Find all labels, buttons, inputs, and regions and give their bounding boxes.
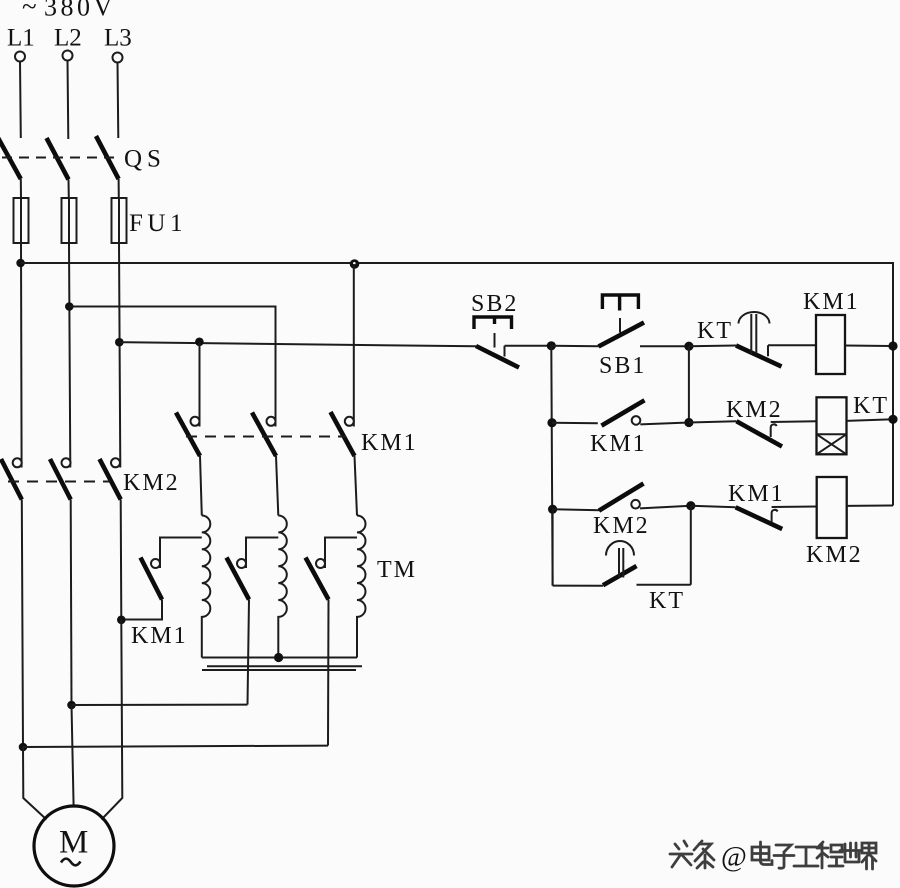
wire QS3 to fuse 3: [118, 179, 120, 198]
wire tap2 horizontal: [72, 704, 248, 706]
SB2 actuator link: [494, 333, 496, 348]
node L2 branch: [65, 302, 74, 311]
KM1 NC fixed hook: [772, 510, 778, 523]
wire node B down: [688, 346, 690, 422]
svg-text:L1: L1: [7, 25, 35, 52]
KT delay symbol lines row3: [618, 548, 620, 578]
watermark 头条@电子工程世界: [670, 841, 876, 873]
svg-text:KM1: KM1: [728, 481, 785, 507]
node KM1 pole1 tap: [195, 338, 204, 347]
coil KT divider: [817, 433, 847, 435]
motor M circle: [34, 806, 114, 886]
svg-text:KM2: KM2: [806, 542, 863, 568]
pushbutton SB1 blade: [599, 323, 645, 347]
KT delayed closing blade: [603, 566, 637, 585]
wire L2 branch horizontal and down to KM1 pole2: [69, 307, 275, 427]
KT delay symbol lines: [750, 314, 752, 354]
KM2 main linkage dashed: [8, 481, 110, 483]
node L1 top rail junction: [16, 259, 25, 268]
pushbutton SB2 blade: [476, 346, 519, 368]
svg-text:KM1: KM1: [131, 623, 188, 649]
svg-text:L2: L2: [54, 25, 82, 52]
wire L1 KM2 down to node: [22, 500, 23, 748]
node D row2: [684, 418, 693, 427]
KM2 NC contact blade: [737, 421, 783, 446]
wire node C to KM1 aux: [552, 422, 598, 425]
wire L2 fuse to KM2: [69, 243, 70, 468]
svg-text:KM2: KM2: [123, 470, 180, 496]
pushbutton SB1 actuator bracket: [602, 295, 638, 309]
node C row2 left: [547, 418, 556, 427]
KM2 aux NO terminal: [631, 500, 640, 509]
glyph 头: [670, 841, 692, 867]
wire node F to KM1 NC: [691, 506, 736, 508]
wire node B to KT contact: [689, 345, 736, 348]
wire QS1 to fuse 1: [20, 179, 22, 198]
switch QS pole 2 blade: [47, 138, 69, 180]
wire SB2 to node A: [505, 345, 552, 347]
transformer TM coil 1: [202, 516, 211, 658]
svg-text:SB2: SB2: [471, 291, 518, 317]
node right rail row2: [888, 415, 897, 424]
wire tap3 horizontal: [23, 746, 328, 747]
motor tilde: [61, 859, 81, 866]
svg-text:FU1: FU1: [129, 210, 187, 237]
svg-text:KT: KT: [697, 318, 733, 344]
glyph 条: [694, 841, 714, 868]
wire KT bypass down: [552, 509, 554, 585]
tap contact KM1-a terminal: [151, 559, 160, 568]
wire KM1 aux to node D: [640, 423, 689, 425]
wire L3 fuse to KM2: [119, 243, 120, 468]
tap contact KM1-c terminal: [316, 559, 325, 568]
KM1 NC contact blade: [736, 507, 783, 529]
pushbutton SB2 actuator bracket: [474, 317, 512, 329]
glyph 程: [817, 842, 843, 868]
svg-text:SB1: SB1: [599, 353, 646, 379]
contactor KM2 main pole 2: [62, 458, 71, 467]
node B: [684, 342, 693, 351]
wire node A down: [551, 346, 552, 586]
svg-text:~: ~: [22, 0, 37, 22]
wire KT bypass bottom left: [553, 585, 603, 587]
glyph 世: [840, 843, 861, 862]
wire KM1 pole3 to coil 3: [355, 456, 358, 516]
svg-text:M: M: [59, 825, 88, 861]
glyph 子: [774, 845, 794, 868]
wire L1 down to QS: [19, 62, 22, 139]
coil KT body: [817, 397, 847, 454]
terminal L3: [113, 53, 123, 63]
contactor KM1 main pole 1: [191, 417, 200, 426]
tap contact KM1-c blade: [306, 558, 329, 600]
wire L3 KM2 down to node: [120, 500, 123, 620]
wire KM2 NC to KT coil: [771, 420, 817, 423]
KT delayed NC contact blade: [736, 346, 782, 367]
contactor KM1 main pole 2: [267, 417, 276, 426]
coil KM1: [816, 315, 845, 374]
svg-text:@: @: [721, 842, 747, 873]
svg-text:380V: 380V: [44, 0, 116, 22]
glyph 工: [794, 847, 818, 866]
coil KT X mark: [817, 434, 847, 454]
terminal L2: [63, 51, 73, 61]
wire SB1 to node B: [640, 345, 689, 347]
wire KM2 aux to node F: [640, 506, 691, 509]
tap 3 wire down to L1 line: [327, 600, 330, 746]
node L1 motor tap: [19, 743, 28, 752]
tap contact KM1-b blade: [227, 558, 250, 600]
wire L2 into motor: [72, 705, 74, 807]
wire L1 into motor: [23, 747, 47, 820]
switch QS pole 1 blade: [0, 136, 21, 179]
star short bar lower: [202, 669, 356, 671]
node L3 branch: [115, 338, 124, 347]
KM2 NC fixed hook: [771, 424, 777, 437]
svg-text:TM: TM: [377, 557, 417, 583]
control rail wire from L3: [119, 342, 476, 346]
wire down to KM1 pole 1: [199, 342, 201, 427]
svg-text:KM2: KM2: [726, 397, 783, 423]
transformer star bar: [202, 657, 357, 659]
wire L3 into motor: [102, 620, 123, 820]
KM1 aux NO terminal: [632, 416, 641, 425]
KT delay symbol arc: [739, 312, 770, 324]
svg-text:QS: QS: [124, 146, 166, 173]
node coil2 star: [274, 653, 283, 662]
node tap1 on L3: [117, 616, 126, 625]
contactor KM2 main pole 1: [13, 458, 22, 467]
wire KT bypass bottom right: [637, 584, 691, 586]
transformer TM coil 2: [278, 516, 287, 658]
svg-text:KM2: KM2: [593, 513, 650, 539]
tap 1 wire from coil: [160, 538, 202, 569]
wire L2 KM2 down to node: [70, 500, 73, 706]
fuse FU1 element 3: [112, 198, 127, 243]
svg-text:KM1: KM1: [590, 431, 647, 457]
svg-text:KT: KT: [853, 393, 889, 419]
top rail wire: [21, 263, 893, 506]
KT contact fixed tick: [767, 345, 769, 356]
switch QS pole 3 blade: [96, 136, 119, 179]
svg-text:KM1: KM1: [803, 289, 860, 315]
wire node E to KM2 aux: [553, 509, 600, 510]
node right rail row1: [888, 341, 897, 350]
tap contact KM1-b terminal: [237, 559, 246, 568]
star short bar upper: [207, 665, 362, 667]
wire KM1 NC to KM2 coil: [772, 506, 817, 509]
wire KT bypass up to node F: [690, 506, 692, 585]
tap 2 wire down to L2 line: [248, 600, 250, 705]
wire KM1 coil to right rail: [845, 345, 893, 348]
node L2 motor tap: [67, 701, 76, 710]
tap contact KM1-a blade: [141, 558, 163, 600]
tap 2 wire from coil: [246, 538, 278, 569]
wire KM2 coil to right rail: [847, 505, 893, 507]
fuse FU1 element 2: [62, 198, 77, 243]
glyph 电: [752, 842, 772, 865]
svg-text:KT: KT: [649, 588, 685, 614]
node A: [547, 341, 556, 350]
transformer TM coil 3: [357, 516, 366, 658]
terminal L1: [15, 52, 25, 62]
coil KM2: [817, 477, 847, 538]
wire top rail down to KM1 pole 3: [353, 264, 355, 427]
wire KM1 pole2 to coil 2: [276, 456, 278, 516]
KT delay symbol arc row3: [606, 541, 634, 556]
KM1 aux NO contact blade: [602, 400, 645, 425]
wire node D to KM2 NC: [689, 421, 737, 422]
KM1 main linkage dashed: [186, 436, 346, 438]
KM2 aux NO contact blade: [599, 484, 644, 511]
wire KM1 pole1 to coil 1: [200, 456, 202, 516]
wire L3 down to QS: [117, 63, 120, 139]
fuse FU1 element 1: [14, 198, 29, 243]
SB2 fixed contact tick: [504, 346, 506, 357]
glyph 界: [862, 843, 876, 869]
node F row3: [686, 501, 695, 510]
wire KT contact to KM1 coil: [768, 344, 816, 346]
wire L2 down to QS: [67, 61, 70, 140]
contactor KM1 main pole 3: [345, 417, 354, 426]
svg-text:L3: L3: [104, 25, 132, 52]
svg-text:KM1: KM1: [361, 430, 418, 456]
wire L1 fuse to KM2: [20, 243, 23, 468]
contactor KM2 main pole 3: [111, 458, 120, 467]
tap 3 wire from coil: [325, 538, 357, 569]
wire QS2 to fuse 2: [68, 180, 70, 199]
node top rail branch (ring): [350, 259, 360, 269]
wire node A to SB1: [551, 345, 598, 347]
tap 1 wire to L3 node: [121, 600, 162, 620]
QS linkage dashed: [2, 157, 114, 159]
wire KT coil to right rail: [847, 419, 894, 421]
node E row3 left: [548, 505, 557, 514]
SB1 actuator link: [619, 318, 621, 333]
